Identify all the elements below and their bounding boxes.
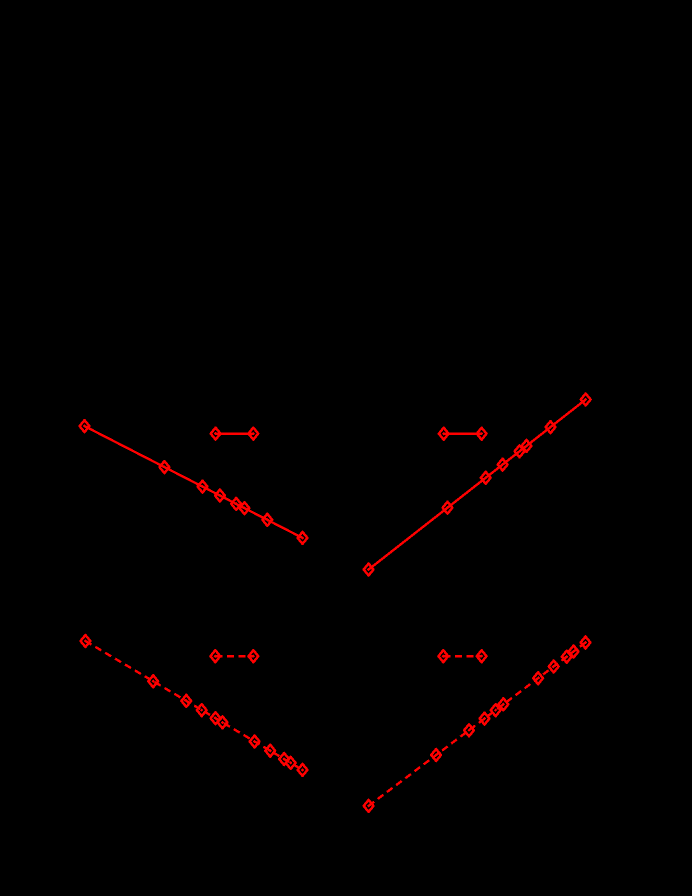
series-2 key sample line xyxy=(444,433,482,435)
series-2 top-right solid marker 3 xyxy=(481,472,491,484)
series-2 key marker left xyxy=(439,428,449,440)
series-1 top-left solid marker 6 xyxy=(240,502,250,514)
series-3 key marker left xyxy=(210,650,220,662)
series-2 key marker right xyxy=(477,428,487,440)
series-2 top-right solid line xyxy=(369,400,586,570)
series-3 bottom-left dashed marker 2 xyxy=(148,675,158,687)
series-3 bottom-left dashed marker 5 xyxy=(211,712,221,724)
series-3 bottom-left dashed marker 9 xyxy=(279,753,289,765)
series-4 key sample line xyxy=(443,655,481,657)
series-2 top-right solid marker 4 xyxy=(498,459,508,471)
series-3 bottom-left dashed marker 8 xyxy=(265,745,275,757)
series-1 key marker right xyxy=(248,428,258,440)
series-3 key marker right xyxy=(249,650,259,662)
series-4 bottom-right dashed marker 1 xyxy=(364,800,374,812)
series-3 bottom-left dashed marker 7 xyxy=(250,736,260,748)
series-3 bottom-left dashed marker 4 xyxy=(197,704,207,716)
series-4 bottom-right dashed marker 7 xyxy=(533,672,543,684)
series-1 top-left solid marker 5 xyxy=(231,498,241,510)
series-1 top-left solid marker 3 xyxy=(198,481,208,493)
series-2 top-right solid marker 1 xyxy=(364,564,374,576)
series-4 bottom-right dashed marker 6 xyxy=(499,698,509,710)
series-2 top-right solid marker 8 xyxy=(581,394,591,406)
series-2 top-right solid marker 7 xyxy=(546,421,556,433)
series-4 bottom-right dashed marker 5 xyxy=(491,704,501,716)
series-1 key marker left xyxy=(211,428,221,440)
series-3 bottom-left dashed marker 6 xyxy=(218,716,228,728)
series-4 bottom-right dashed marker 9 xyxy=(562,651,572,663)
series-3 bottom-left dashed marker 3 xyxy=(181,695,191,707)
series-3 bottom-left dashed line xyxy=(85,641,302,770)
series-3 bottom-left dashed marker 11 xyxy=(298,764,308,776)
series-4 bottom-right dashed marker 2 xyxy=(431,749,441,761)
series-1 top-left solid marker 7 xyxy=(262,514,272,526)
series-4 bottom-right dashed marker 11 xyxy=(581,637,591,649)
series-1 top-left solid marker 2 xyxy=(160,461,170,473)
series-4 bottom-right dashed marker 8 xyxy=(549,661,559,673)
series-1 top-left solid marker 8 xyxy=(298,532,308,544)
series-2 top-right solid marker 5 xyxy=(515,445,525,457)
series-4 bottom-right dashed marker 4 xyxy=(480,713,490,725)
series-1 top-left solid line xyxy=(85,426,303,538)
series-4 bottom-right dashed marker 10 xyxy=(569,646,579,658)
series-4 bottom-right dashed marker 3 xyxy=(464,724,474,736)
series-2 top-right solid marker 2 xyxy=(443,502,453,514)
series-1 key sample line xyxy=(216,432,254,434)
series-3 bottom-left dashed marker 1 xyxy=(81,635,91,647)
series-4 bottom-right dashed line xyxy=(369,643,586,806)
series-4 key marker right xyxy=(477,650,487,662)
series-1 top-left solid marker 1 xyxy=(80,420,90,432)
series-3 key sample line xyxy=(215,655,253,657)
series-3 bottom-left dashed marker 10 xyxy=(286,757,296,769)
series-1 top-left solid marker 4 xyxy=(215,490,225,502)
series-2 top-right solid marker 6 xyxy=(522,440,532,452)
series-4 key marker left xyxy=(438,650,448,662)
